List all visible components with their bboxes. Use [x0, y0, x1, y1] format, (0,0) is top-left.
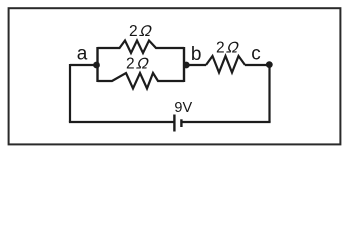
- svg-text:2: 2: [129, 23, 138, 40]
- value label 2 ohm (R1): [129, 23, 154, 40]
- value label 2 ohm (R3): [216, 40, 241, 57]
- wire left riser of parallel pair: [96, 47, 98, 82]
- wire right riser of parallel pair: [183, 47, 185, 82]
- frame (decorative): [9, 8, 341, 144]
- wire node b to R3: [184, 64, 206, 66]
- resistor R2 bottom 2 ohm: [98, 73, 185, 89]
- svg-text:2: 2: [216, 40, 225, 57]
- wire R3 to node c: [245, 64, 270, 66]
- svg-text:b: b: [191, 44, 202, 65]
- value label 2 ohm (R2): [126, 56, 151, 73]
- wire left vertical: [69, 64, 71, 122]
- wire node a to left corner: [70, 64, 97, 66]
- wire bottom left to battery: [69, 121, 174, 123]
- wire right vertical: [268, 65, 270, 123]
- junction dot node c: [266, 61, 273, 68]
- svg-text:a: a: [77, 44, 88, 65]
- battery V1 9V: [174, 115, 181, 132]
- junction dot node a: [93, 62, 100, 69]
- svg-text:2: 2: [126, 56, 135, 73]
- wire battery to bottom right: [182, 121, 270, 123]
- svg-text:c: c: [251, 44, 261, 65]
- resistor R3 2 ohm: [206, 56, 245, 73]
- svg-text:9V: 9V: [174, 100, 192, 116]
- junction dot node b: [183, 62, 190, 69]
- resistor R1 top 2 ohm: [98, 41, 185, 54]
